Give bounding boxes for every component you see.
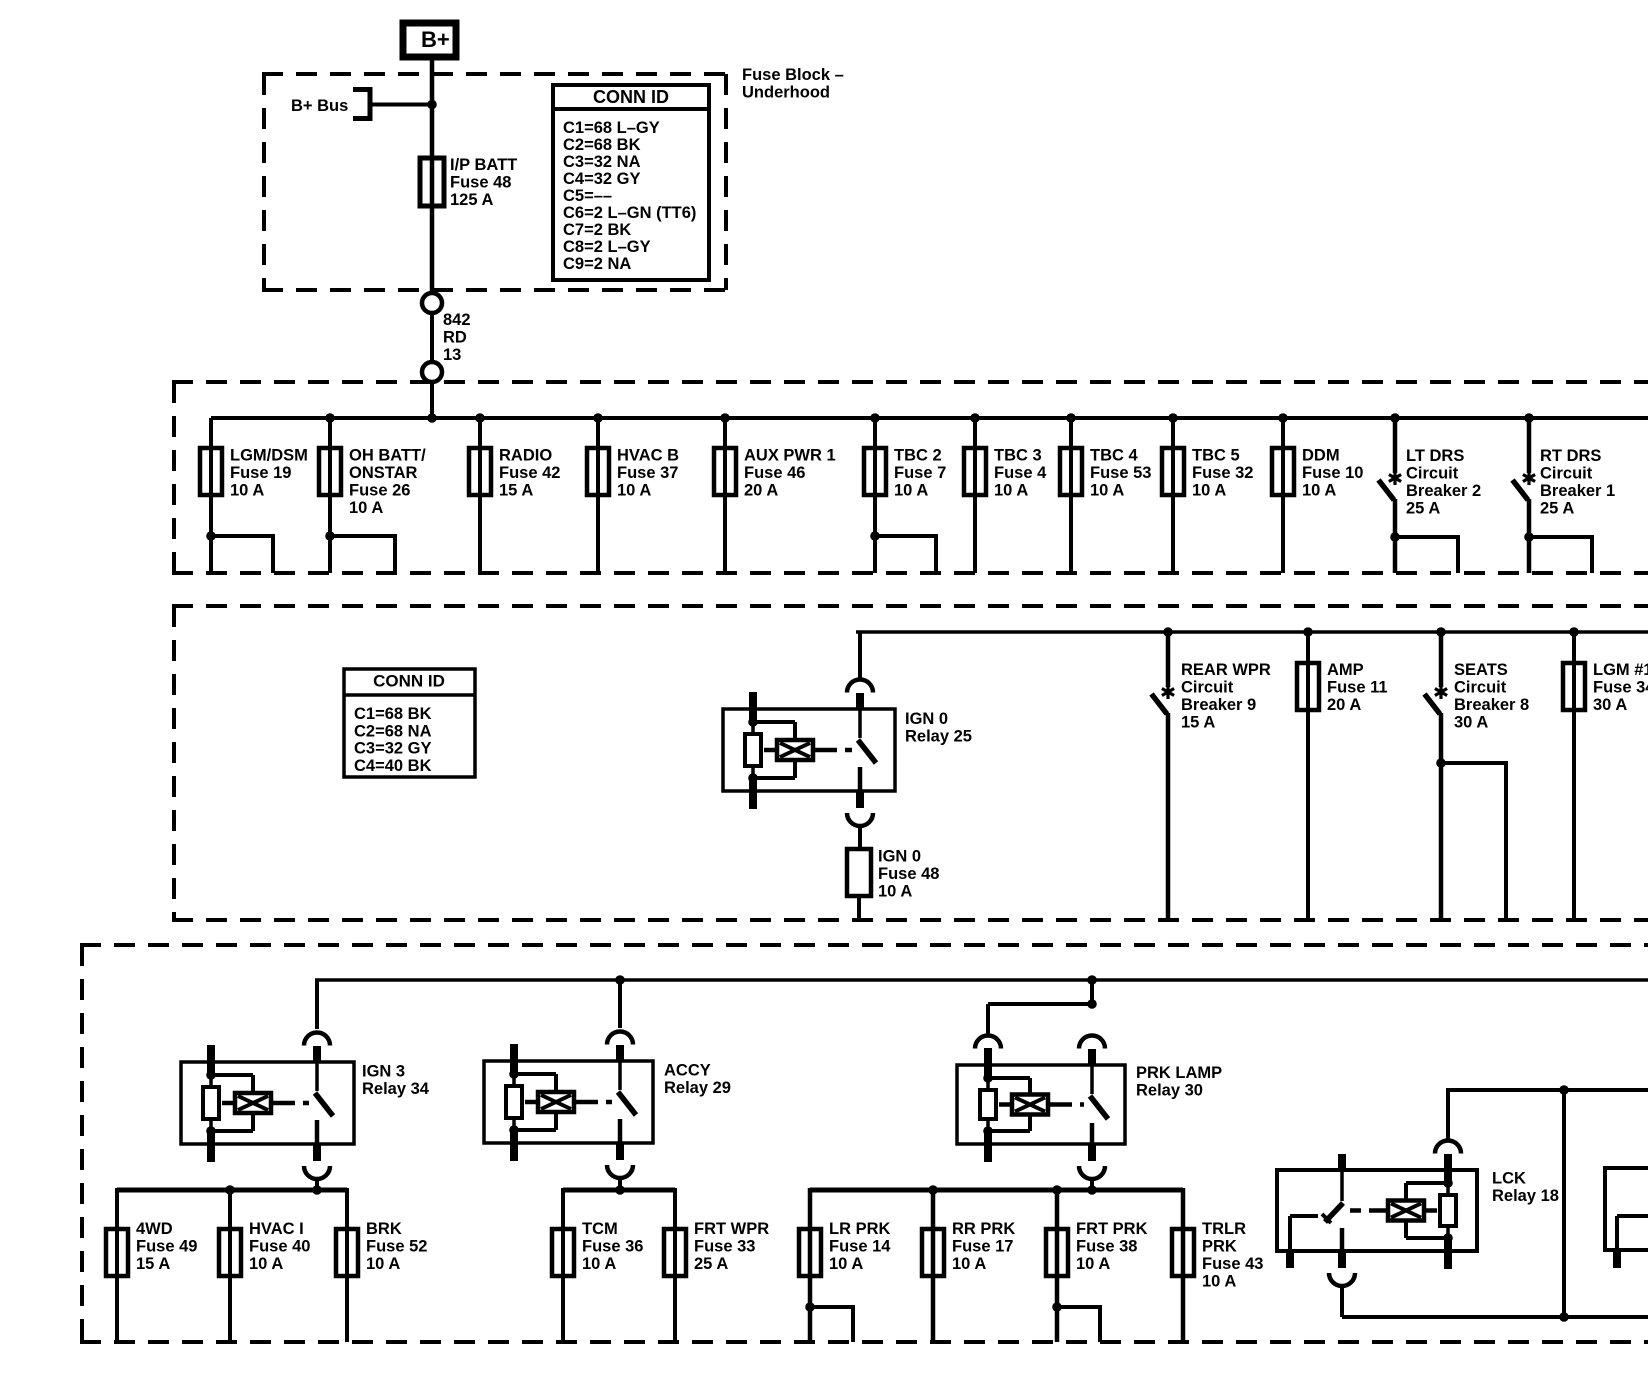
svg-text:25 A: 25 A xyxy=(694,1255,728,1273)
fuse 42 RADIO xyxy=(469,413,560,573)
svg-text:DDM: DDM xyxy=(1302,447,1340,465)
svg-text:ONSTAR: ONSTAR xyxy=(349,464,418,482)
conn id table 2 xyxy=(344,669,475,777)
bus IGN 3 outputs xyxy=(117,1185,347,1195)
svg-text:25 A: 25 A xyxy=(1540,500,1574,518)
svg-text:Fuse 42: Fuse 42 xyxy=(499,464,560,482)
svg-text:Circuit: Circuit xyxy=(1454,679,1507,697)
fuse 48 I/P BATT xyxy=(420,158,444,206)
svg-text:Relay 34: Relay 34 xyxy=(362,1080,430,1098)
circuit breaker 2 LT DRS xyxy=(1379,413,1482,573)
svg-text:125 A: 125 A xyxy=(450,191,494,209)
label relay 18 xyxy=(1492,1170,1559,1206)
svg-text:30 A: 30 A xyxy=(1593,696,1627,714)
label fuse 48 xyxy=(450,156,517,209)
svg-text:15 A: 15 A xyxy=(1181,714,1215,732)
svg-text:FRT PRK: FRT PRK xyxy=(1076,1220,1148,1238)
fuse 17 RR PRK xyxy=(922,1188,1015,1342)
svg-text:Fuse 7: Fuse 7 xyxy=(894,464,946,482)
fuse 52 BRK xyxy=(336,1188,427,1342)
svg-text:10 A: 10 A xyxy=(952,1255,986,1273)
svg-text:AUX PWR 1: AUX PWR 1 xyxy=(744,447,836,465)
svg-text:Fuse 48: Fuse 48 xyxy=(878,865,939,883)
bus PRK LAMP outputs xyxy=(810,1185,1183,1195)
relay 29 ACCY xyxy=(484,975,653,1190)
svg-text:LCK: LCK xyxy=(1492,1170,1526,1188)
svg-text:AMP: AMP xyxy=(1327,661,1364,679)
fuse 33 FRT WPR xyxy=(664,1188,769,1342)
svg-text:RT DRS: RT DRS xyxy=(1540,447,1601,465)
circuit breaker 8 SEATS xyxy=(1425,627,1530,920)
svg-text:C4=40 BK: C4=40 BK xyxy=(354,757,432,775)
svg-text:Fuse Block –: Fuse Block – xyxy=(742,66,844,84)
svg-text:Fuse 14: Fuse 14 xyxy=(829,1238,891,1256)
svg-text:30 A: 30 A xyxy=(1454,714,1488,732)
fuse 14 LR PRK xyxy=(799,1188,891,1342)
svg-text:C2=68 NA: C2=68 NA xyxy=(354,722,432,740)
label relay 25 xyxy=(905,710,972,746)
fuse 53 TBC 4 xyxy=(1060,413,1151,573)
svg-text:PRK LAMP: PRK LAMP xyxy=(1136,1064,1222,1082)
svg-text:C7=2 BK: C7=2 BK xyxy=(563,221,631,239)
svg-text:TBC 5: TBC 5 xyxy=(1192,447,1240,465)
svg-text:TBC 2: TBC 2 xyxy=(894,447,942,465)
svg-text:Fuse 38: Fuse 38 xyxy=(1076,1238,1137,1256)
svg-text:10 A: 10 A xyxy=(617,482,651,500)
svg-text:Breaker 1: Breaker 1 xyxy=(1540,482,1615,500)
svg-text:IGN 3: IGN 3 xyxy=(362,1063,405,1081)
svg-text:20 A: 20 A xyxy=(1327,696,1361,714)
svg-text:CONN ID: CONN ID xyxy=(373,671,445,690)
svg-text:25 A: 25 A xyxy=(1406,500,1440,518)
svg-text:Circuit: Circuit xyxy=(1181,679,1234,697)
label wire 842 RD 13 xyxy=(443,311,471,364)
bus B+ row 1 xyxy=(211,416,1648,420)
circuit breaker 1 RT DRS xyxy=(1513,413,1616,573)
svg-text:10 A: 10 A xyxy=(230,482,264,500)
svg-text:Underhood: Underhood xyxy=(742,84,830,102)
svg-text:Fuse 32: Fuse 32 xyxy=(1192,464,1253,482)
svg-text:LT DRS: LT DRS xyxy=(1406,447,1464,465)
svg-text:10 A: 10 A xyxy=(1202,1273,1236,1291)
svg-text:C3=32 GY: C3=32 GY xyxy=(354,740,432,758)
svg-text:TBC 3: TBC 3 xyxy=(994,447,1042,465)
svg-text:Fuse 4: Fuse 4 xyxy=(994,464,1047,482)
fuse 36 TCM xyxy=(552,1188,643,1342)
svg-text:REAR WPR: REAR WPR xyxy=(1181,661,1271,679)
svg-text:LGM #1: LGM #1 xyxy=(1593,661,1648,679)
svg-text:LR PRK: LR PRK xyxy=(829,1220,891,1238)
svg-text:IGN 0: IGN 0 xyxy=(878,848,921,866)
svg-text:B+ Bus: B+ Bus xyxy=(291,97,348,115)
svg-text:Relay 30: Relay 30 xyxy=(1136,1082,1203,1100)
dashed box fuse block row 2 xyxy=(172,606,1648,920)
junction battery feed row 1 xyxy=(427,413,437,423)
svg-text:FRT WPR: FRT WPR xyxy=(694,1220,769,1238)
fuse 48 IGN 0 xyxy=(847,848,939,922)
svg-text:I/P BATT: I/P BATT xyxy=(450,156,517,174)
wire B+ Bus to battery feed xyxy=(370,103,432,107)
svg-text:TRLR: TRLR xyxy=(1202,1220,1246,1238)
svg-text:10 A: 10 A xyxy=(1192,482,1226,500)
dashed box Fuse Block - Underhood xyxy=(262,74,728,290)
svg-text:Breaker 9: Breaker 9 xyxy=(1181,696,1256,714)
fuse 37 HVAC B xyxy=(587,413,679,573)
svg-text:C4=32 GY: C4=32 GY xyxy=(563,170,641,188)
svg-text:Fuse 53: Fuse 53 xyxy=(1090,464,1151,482)
fuse 32 TBC 5 xyxy=(1162,413,1253,573)
svg-text:13: 13 xyxy=(443,346,461,364)
svg-text:C8=2 L–GY: C8=2 L–GY xyxy=(563,238,651,256)
svg-text:Fuse 40: Fuse 40 xyxy=(249,1238,310,1256)
svg-text:OH BATT/: OH BATT/ xyxy=(349,447,426,465)
dashed box fuse block row 3 xyxy=(80,945,1648,1342)
fuse 19 LGM/DSM xyxy=(200,418,308,573)
svg-text:LGM/DSM: LGM/DSM xyxy=(230,447,308,465)
fuse 46 AUX PWR 1 xyxy=(714,413,836,573)
fuse 38 FRT PRK xyxy=(1046,1188,1148,1342)
fuse 26 OH BATT/ xyxy=(319,413,426,573)
fuse 34 LGM xyxy=(1563,627,1648,920)
fuse 7 TBC 2 xyxy=(864,413,946,573)
svg-text:C5=––: C5=–– xyxy=(563,187,612,205)
label relay 34 xyxy=(362,1063,430,1099)
svg-text:C1=68 L–GY: C1=68 L–GY xyxy=(563,119,660,137)
relay partial right edge xyxy=(1605,1168,1648,1268)
wire LCK switch output xyxy=(1342,1312,1648,1322)
wire B+ to fuse 48 xyxy=(430,60,435,293)
svg-text:Fuse 48: Fuse 48 xyxy=(450,174,511,192)
fuse 43 TRLR xyxy=(1172,1188,1263,1342)
relay 34 IGN 3 xyxy=(181,980,354,1190)
svg-text:B+: B+ xyxy=(421,27,450,52)
svg-text:C3=32 NA: C3=32 NA xyxy=(563,153,641,171)
label relay 30 xyxy=(1136,1064,1222,1100)
svg-text:Fuse 49: Fuse 49 xyxy=(136,1238,197,1256)
svg-text:RADIO: RADIO xyxy=(499,447,552,465)
connector C2 ring lower xyxy=(422,362,442,382)
svg-text:Fuse 52: Fuse 52 xyxy=(366,1238,427,1256)
svg-text:Fuse 34: Fuse 34 xyxy=(1593,679,1648,697)
svg-text:RD: RD xyxy=(443,329,467,347)
relay 18 LCK xyxy=(1277,1090,1477,1317)
fuse 49 4WD xyxy=(106,1188,197,1342)
label Fuse Block - Underhood xyxy=(742,66,844,102)
svg-text:Fuse 19: Fuse 19 xyxy=(230,464,291,482)
conn id table 1 xyxy=(553,85,709,280)
svg-text:ACCY: ACCY xyxy=(664,1062,711,1080)
svg-text:C9=2 NA: C9=2 NA xyxy=(563,255,631,273)
svg-text:IGN 0: IGN 0 xyxy=(905,710,948,728)
svg-text:CONN ID: CONN ID xyxy=(593,87,669,107)
svg-text:Fuse 17: Fuse 17 xyxy=(952,1238,1013,1256)
svg-text:Breaker 2: Breaker 2 xyxy=(1406,482,1481,500)
power feed B+ terminal xyxy=(403,23,456,57)
svg-text:C2=68 BK: C2=68 BK xyxy=(563,136,641,154)
svg-text:Fuse 43: Fuse 43 xyxy=(1202,1255,1263,1273)
svg-text:10 A: 10 A xyxy=(1090,482,1124,500)
relay 25 IGN 0 xyxy=(723,632,895,849)
label relay 29 xyxy=(664,1062,731,1098)
fuse 40 HVAC I xyxy=(219,1188,310,1342)
svg-text:Relay 29: Relay 29 xyxy=(664,1079,731,1097)
svg-text:HVAC I: HVAC I xyxy=(249,1220,304,1238)
svg-text:15 A: 15 A xyxy=(136,1255,170,1273)
svg-text:C1=68 BK: C1=68 BK xyxy=(354,705,432,723)
svg-text:HVAC B: HVAC B xyxy=(617,447,679,465)
svg-text:10 A: 10 A xyxy=(878,883,912,901)
svg-text:TBC 4: TBC 4 xyxy=(1090,447,1138,465)
circuit breaker 9 REAR WPR xyxy=(1152,627,1271,920)
fuse 11 AMP xyxy=(1297,627,1388,920)
svg-text:10 A: 10 A xyxy=(349,499,383,517)
bus ACCY outputs xyxy=(563,1185,675,1195)
svg-text:10 A: 10 A xyxy=(1302,482,1336,500)
svg-text:Fuse 36: Fuse 36 xyxy=(582,1238,643,1256)
svg-text:Fuse 46: Fuse 46 xyxy=(744,464,805,482)
svg-text:15 A: 15 A xyxy=(499,482,533,500)
svg-text:RR PRK: RR PRK xyxy=(952,1220,1015,1238)
svg-text:10 A: 10 A xyxy=(829,1255,863,1273)
svg-text:10 A: 10 A xyxy=(366,1255,400,1273)
bus row 2 xyxy=(856,630,1648,634)
svg-text:10 A: 10 A xyxy=(894,482,928,500)
svg-text:Fuse 33: Fuse 33 xyxy=(694,1238,755,1256)
junction B+ bus xyxy=(427,100,437,110)
wire 842 RD xyxy=(430,313,434,362)
svg-text:842: 842 xyxy=(443,311,471,329)
wire into IP fuse block xyxy=(430,382,434,418)
wire right riser xyxy=(1562,1090,1566,1317)
relay 30 PRK LAMP xyxy=(957,975,1125,1190)
svg-text:10 A: 10 A xyxy=(249,1255,283,1273)
fuse 10 DDM xyxy=(1272,413,1363,573)
svg-text:BRK: BRK xyxy=(366,1220,402,1238)
svg-text:TCM: TCM xyxy=(582,1220,618,1238)
bus row 3 feed xyxy=(315,978,1648,982)
svg-text:10 A: 10 A xyxy=(994,482,1028,500)
svg-text:10 A: 10 A xyxy=(1076,1255,1110,1273)
svg-text:Circuit: Circuit xyxy=(1406,465,1459,483)
svg-text:Relay 18: Relay 18 xyxy=(1492,1187,1559,1205)
svg-text:Fuse 37: Fuse 37 xyxy=(617,464,678,482)
dashed box fuse block row 1 xyxy=(172,382,1648,573)
fuse 4 TBC 3 xyxy=(964,413,1047,573)
node B+ Bus xyxy=(291,87,370,121)
svg-text:Fuse 26: Fuse 26 xyxy=(349,482,410,500)
wire LCK feed xyxy=(1446,1085,1648,1095)
svg-text:4WD: 4WD xyxy=(136,1220,173,1238)
svg-text:Circuit: Circuit xyxy=(1540,465,1593,483)
svg-text:20 A: 20 A xyxy=(744,482,778,500)
connector C1 ring upper xyxy=(422,293,442,313)
svg-text:PRK: PRK xyxy=(1202,1238,1237,1256)
svg-text:Relay 25: Relay 25 xyxy=(905,728,972,746)
svg-text:SEATS: SEATS xyxy=(1454,661,1508,679)
svg-text:Fuse 10: Fuse 10 xyxy=(1302,464,1363,482)
svg-text:10 A: 10 A xyxy=(582,1255,616,1273)
svg-text:Breaker 8: Breaker 8 xyxy=(1454,696,1529,714)
svg-text:C6=2 L–GN (TT6): C6=2 L–GN (TT6) xyxy=(563,204,696,222)
svg-text:Fuse 11: Fuse 11 xyxy=(1327,679,1388,697)
